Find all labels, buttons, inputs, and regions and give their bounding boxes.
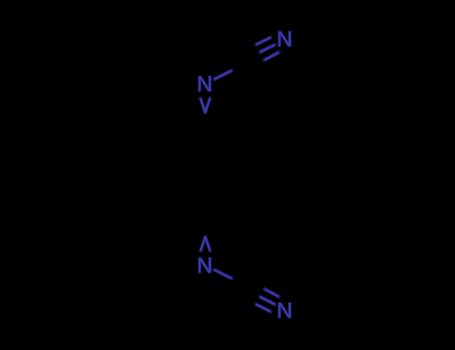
double bond C1=N1 black half toward ring carbon xyxy=(203,113,207,124)
single bond N3-C8 black half xyxy=(232,278,249,287)
antialias fringe halo under the blue ink (soft dark-navy, as in the upscaled source art) xyxy=(200,98,210,251)
nitrogen label N4 (bottom terminal nitrile N) xyxy=(279,303,291,318)
double bond C4=N3 blue half (inverted V) xyxy=(201,237,211,251)
nitrogen label N1 (top imine N) xyxy=(199,76,211,91)
single bond N3-C8 blue half xyxy=(214,270,231,279)
nitrogen label N3 (bottom imine N) xyxy=(199,258,211,273)
triple bond C8#N4 blue halves xyxy=(256,289,279,311)
double bond C1=N1 blue half (V shape) xyxy=(200,98,210,112)
double bond C4=N3 black half toward ring carbon xyxy=(203,225,207,236)
double bond C5=C6 right inner line (black) xyxy=(251,152,253,189)
triple bond C8#N4 black halves xyxy=(242,282,265,305)
ring C6 (black carbon skeleton, matches transparent-black field) xyxy=(152,125,258,216)
single bond N1-C7 blue half xyxy=(214,71,231,80)
triple bond C7#N2 black halves xyxy=(242,45,265,68)
single bond N1-C7 black half xyxy=(232,62,249,71)
triple bond C7#N2 blue halves xyxy=(256,38,279,60)
nitrogen label N2 (top terminal nitrile N) xyxy=(279,32,291,47)
double bond C2=C3 left inner line (black) xyxy=(156,152,158,189)
